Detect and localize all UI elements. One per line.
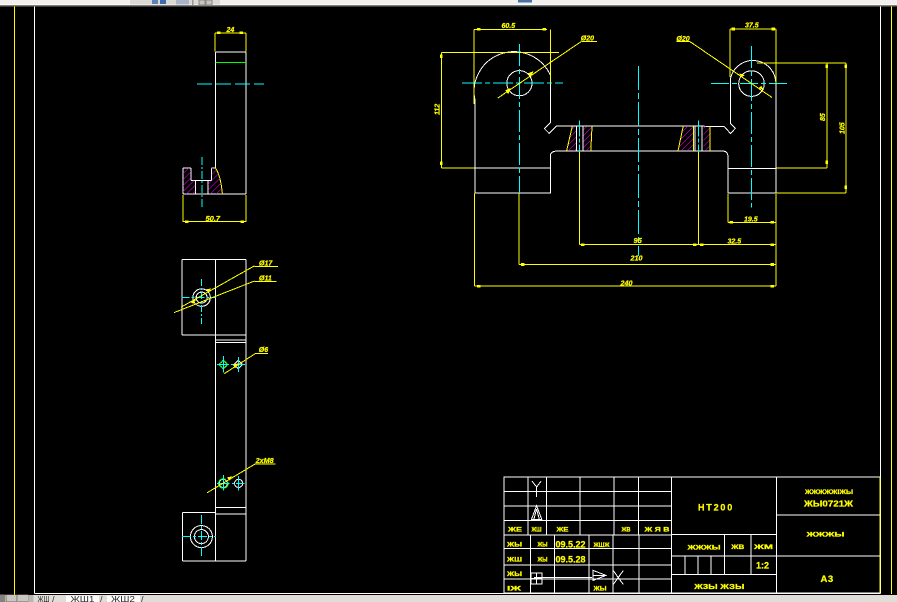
- svg-text:85: 85: [820, 113, 827, 121]
- right joint centerline: [698, 121, 700, 157]
- svg-text:Ø6: Ø6: [259, 347, 268, 354]
- svg-text:ЖШЖ: ЖШЖ: [593, 542, 610, 549]
- drawing frame white bottom: [35, 592, 881, 594]
- left joint centerline: [578, 121, 580, 157]
- small hole right diamond: [234, 360, 243, 369]
- svg-text:32.5: 32.5: [728, 239, 742, 246]
- part center axis: [638, 66, 640, 256]
- counterbore hole section: [191, 168, 212, 194]
- svg-text:ЖЕ: ЖЕ: [507, 527, 522, 534]
- foot hole crosshair: [182, 536, 216, 538]
- left joint hatch A: [567, 127, 577, 151]
- svg-text:37.5: 37.5: [745, 23, 759, 30]
- leader D17: [181, 266, 278, 307]
- crosshairs of tapped holes: [217, 475, 245, 491]
- title block texts: [506, 489, 854, 593]
- svg-text:Ø17: Ø17: [259, 260, 273, 267]
- dimension 85: [757, 63, 846, 168]
- left block step line: [475, 167, 550, 169]
- dimension 60.5: [474, 28, 550, 104]
- middle column separators: [672, 477, 777, 593]
- datum target Y symbol: [532, 481, 541, 497]
- svg-text:ЖЫ: ЖЫ: [537, 557, 548, 564]
- left hole: [507, 71, 532, 96]
- crosshairs of small holes: [217, 356, 245, 372]
- column centerline cyan: [197, 83, 264, 85]
- svg-text:Ø11: Ø11: [259, 276, 272, 283]
- drawing frame white left: [34, 7, 36, 594]
- svg-text:ЖШ: ЖШ: [531, 527, 542, 534]
- svg-text:ЖЫ: ЖЫ: [506, 571, 522, 578]
- toolbar strip top: [0, 0, 897, 7]
- svg-text:ЖЖЖЖЖІЖЫ: ЖЖЖЖЖІЖЫ: [804, 489, 854, 496]
- svg-text:09.5.28: 09.5.28: [556, 555, 586, 565]
- svg-text:210: 210: [630, 254, 643, 263]
- svg-text:ЖЖЖЫ: ЖЖЖЫ: [805, 532, 845, 539]
- status bar content: [0, 594, 144, 602]
- svg-text:ЖШ1: ЖШ1: [71, 595, 96, 602]
- small hole left diamond: [219, 360, 228, 369]
- status bar bottom: [0, 595, 897, 602]
- right hole centerlines: [711, 83, 790, 85]
- svg-text:ЖМ: ЖМ: [752, 544, 773, 551]
- svg-text:Ж Я В: Ж Я В: [643, 527, 670, 534]
- hole centerline cyan vertical: [201, 157, 203, 208]
- svg-text:ЖЫ: ЖЫ: [592, 585, 606, 592]
- leader line double: [534, 578, 592, 580]
- leader D11: [174, 281, 277, 313]
- svg-text:112: 112: [435, 104, 442, 115]
- tolerance frame boxes: [531, 573, 542, 584]
- svg-text:Ж3Ы ЖЗЫ: Ж3Ы ЖЗЫ: [693, 582, 744, 591]
- dimension 112: [440, 53, 559, 168]
- column outline: [215, 52, 246, 194]
- svg-text:ЖЫ: ЖЫ: [506, 542, 522, 549]
- leader D20 right: [676, 42, 772, 98]
- left joint boundaries: [567, 127, 573, 151]
- right column rows: [777, 515, 881, 556]
- svg-text:ЖВ: ЖВ: [730, 544, 745, 551]
- svg-text:240: 240: [620, 278, 633, 287]
- hollow arrow: [593, 570, 606, 580]
- green circle on left hole: [220, 361, 227, 368]
- plate outline: [182, 259, 246, 335]
- svg-text:2xM8: 2xM8: [255, 456, 274, 465]
- tapped holes 2xM8: [219, 479, 227, 487]
- hatch right of hole: [208, 168, 222, 195]
- svg-text:ІЖ: ІЖ: [507, 585, 521, 592]
- dimension 105: [776, 63, 847, 193]
- right hole: [739, 71, 765, 97]
- dimension 32.5: [699, 243, 777, 246]
- title block yellow right edge overlay: [879, 477, 881, 593]
- dimension 37.5: [730, 28, 776, 84]
- title block outer frame: [504, 477, 881, 593]
- projection cone symbol: [531, 506, 541, 520]
- leader D6: [224, 353, 268, 373]
- svg-text:95: 95: [634, 236, 643, 245]
- sheet outer yellow border right: [891, 7, 893, 595]
- middle section rows: [672, 535, 777, 575]
- svg-text:ЖЫ: ЖЫ: [537, 542, 548, 549]
- lower-left grid columns: [530, 535, 639, 593]
- svg-text:09.5.22: 09.5.22: [556, 540, 586, 550]
- svg-text:24: 24: [226, 27, 235, 34]
- left hole centerlines: [462, 82, 563, 84]
- long vertical edges: [215, 259, 246, 561]
- svg-text:ЖШ: ЖШ: [38, 595, 50, 602]
- green machined line: [215, 62, 246, 64]
- svg-text:Ø20: Ø20: [676, 36, 689, 43]
- svg-text:19.5: 19.5: [744, 216, 758, 223]
- right block step line: [728, 167, 776, 169]
- right joint boundaries: [678, 126, 683, 151]
- sheet outer yellow border left: [14, 7, 16, 595]
- right joint hatch B: [703, 126, 709, 151]
- svg-text:HT200: HT200: [698, 503, 734, 513]
- svg-text:ЖЕ: ЖЕ: [555, 527, 568, 534]
- upper-left grid columns: [528, 477, 639, 535]
- foot block: [183, 508, 246, 561]
- svg-text:ЖВ: ЖВ: [621, 527, 631, 534]
- hatch left of hole: [183, 168, 196, 194]
- foot hole circles: [190, 526, 212, 548]
- svg-text:A3: A3: [821, 574, 834, 585]
- dimension 19.5: [728, 194, 776, 230]
- svg-text:Ø20: Ø20: [581, 36, 594, 43]
- drawing frame white right: [880, 7, 882, 594]
- title block drawn symbols: [531, 481, 623, 585]
- svg-text:60.5: 60.5: [502, 23, 516, 30]
- base outline: [183, 168, 246, 194]
- crosshair of counterbore: [181, 297, 215, 299]
- counterbore circles front: [193, 289, 211, 307]
- dimension 240: [475, 194, 776, 288]
- thread green arc: [219, 479, 229, 489]
- casting fillet yellow: [215, 168, 222, 194]
- upper-left grid rows: [504, 492, 672, 536]
- svg-text:ЖШ: ЖШ: [506, 557, 522, 564]
- left joint hatch B: [583, 127, 592, 151]
- svg-text:ЖЫ0721Ж: ЖЫ0721Ж: [803, 500, 854, 509]
- middle small cells: [685, 535, 751, 575]
- dimension 50.7: [183, 195, 246, 223]
- part outline: [474, 52, 776, 193]
- svg-text:1:2: 1:2: [756, 561, 769, 571]
- svg-text:105: 105: [839, 122, 846, 134]
- svg-text:ЖЖЖЫ: ЖЖЖЫ: [686, 544, 720, 551]
- svg-text:ЖШ2: ЖШ2: [111, 595, 136, 602]
- right joint hatch A: [678, 126, 693, 151]
- dimension 24: [215, 32, 246, 52]
- dimension 210: [519, 194, 776, 266]
- leader D20 left: [498, 42, 597, 99]
- leader 2xM8: [207, 464, 275, 493]
- dimension 95: [579, 152, 698, 246]
- lower-left grid rows: [504, 549, 672, 579]
- rib edge lines: [215, 340, 246, 342]
- X mark: [613, 571, 623, 585]
- svg-text:50.7: 50.7: [206, 214, 221, 223]
